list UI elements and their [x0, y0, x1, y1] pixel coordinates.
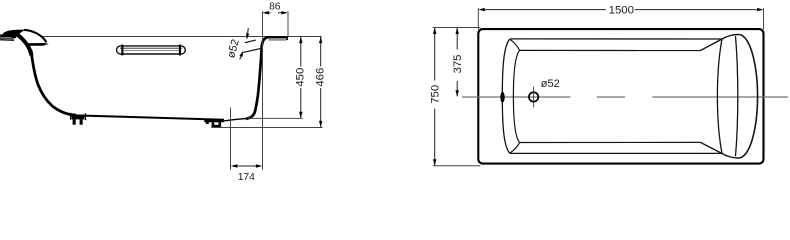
backrest top diagonal	[700, 35, 740, 51]
overflow hole edge marks on right wall	[243, 40, 260, 52]
extension lines 1500	[478, 8, 763, 29]
left corner chamfer bottom	[510, 143, 520, 154]
dimension 174 (bottom)	[231, 164, 263, 183]
left foot ticks	[71, 113, 86, 120]
tub bottom line	[70, 115, 224, 120]
dimension 1500 (top)	[478, 5, 763, 17]
dimension 450 (vertical)	[295, 37, 307, 119]
label ø52 (top view)	[541, 78, 560, 90]
svg-text:86: 86	[269, 1, 281, 12]
drain flange	[204, 119, 223, 124]
dimension 375 (vertical, to centerline)	[452, 28, 464, 97]
svg-text:174: 174	[238, 172, 255, 183]
backrest inner arc A	[717, 39, 722, 153]
headrest outer arc (thin)	[24, 30, 46, 43]
waterline bottom edge	[520, 141, 701, 143]
left wall of tub (section, upper sweep)	[17, 34, 32, 56]
dimension 86 (top right)	[262, 1, 288, 14]
dimension 750 (vertical, full height)	[429, 28, 441, 166]
waterline top edge	[520, 49, 701, 51]
headrest hump band (filled, left lump)	[2, 30, 26, 37]
left bowl arc	[502, 39, 510, 153]
extension line bottom (750)	[433, 165, 481, 167]
svg-text:1500: 1500	[609, 5, 634, 17]
svg-text:450: 450	[295, 68, 307, 87]
svg-text:ø52: ø52	[541, 78, 560, 90]
drain trap body	[212, 122, 222, 127]
left corner chamfer top	[510, 39, 520, 50]
extension line top (375/750)	[433, 27, 481, 29]
extension line 450 (tub bottom)	[248, 117, 303, 119]
left foot body	[72, 116, 84, 125]
rim line (tub top edge, side view)	[42, 36, 322, 38]
drain hole circle ø52	[529, 87, 538, 108]
handle (grab bar)	[117, 45, 186, 56]
headrest bottom lip	[27, 43, 49, 46]
backrest middle arc B	[736, 36, 738, 156]
backrest bottom diagonal	[700, 142, 740, 158]
bowl top edge	[510, 38, 722, 40]
centerline	[462, 96, 788, 98]
tub bottom continuation to right wall	[224, 118, 247, 121]
left waterline arc	[513, 50, 519, 142]
top flange (right, side view)	[266, 36, 288, 41]
bowl bottom edge	[510, 152, 722, 154]
svg-text:466: 466	[315, 68, 327, 87]
extension line 466 (floor)	[211, 127, 322, 129]
headrest band-to-wall filler	[6, 32, 19, 39]
left wall of tub (section, lower)	[31, 50, 76, 115]
extension line shared 86/174	[262, 11, 264, 170]
extension line 174 left (drain center)	[230, 108, 232, 170]
extension line 86 right	[287, 11, 289, 36]
svg-text:375: 375	[452, 55, 464, 74]
right wall of tub (section)	[246, 37, 269, 119]
backrest outer arc	[740, 35, 758, 159]
overflow hole (top view, filled ellipse)	[500, 92, 504, 103]
headrest left lip wedge	[0, 34, 15, 41]
dimension leader ø52 (side view)	[239, 28, 249, 59]
label ø52 (side view, rotated)	[225, 38, 242, 59]
dimension 466 (vertical)	[315, 37, 327, 128]
outer rim rectangle	[478, 29, 763, 164]
svg-text:750: 750	[429, 85, 441, 104]
